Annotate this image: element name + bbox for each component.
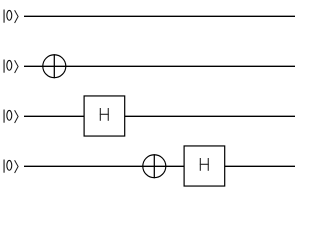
qubit label q1 ket0	[4, 60, 18, 74]
H gate box on q3	[184, 146, 225, 186]
qubit label q3 ket0	[4, 160, 18, 174]
qubit label q0 ket0	[4, 10, 18, 24]
qubit label q2 ket0	[4, 110, 18, 124]
wire q0	[24, 15, 295, 17]
X gate (circle-plus) on q3	[142, 154, 166, 178]
wire q1	[24, 65, 295, 67]
H gate box on q2	[84, 96, 125, 136]
X gate (circle-plus) on q1	[42, 54, 66, 78]
wire q2	[24, 115, 295, 117]
wire q3	[24, 165, 295, 167]
